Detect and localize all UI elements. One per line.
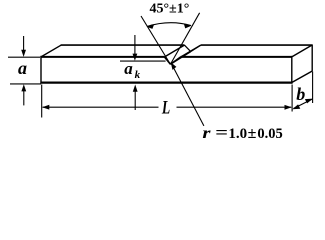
svg-text:45°±1°: 45°±1° bbox=[149, 1, 189, 16]
dimension b: far extension line (vertical) bbox=[312, 72, 314, 104]
dimension L: left arrowhead (points left) bbox=[42, 105, 49, 110]
dimension a_k: upper arrowhead (points down) bbox=[133, 54, 138, 61]
45 degree dimension: left angle line bbox=[141, 16, 170, 64]
svg-text:=: = bbox=[215, 123, 228, 142]
V-notch: right top edge oblique bbox=[181, 45, 201, 57]
radius leader: arrowhead pointing at notch root bbox=[171, 62, 177, 70]
dimension L: line right segment bbox=[177, 106, 292, 108]
specimen bar: right face far vertical edge bbox=[311, 45, 313, 72]
svg-text:r: r bbox=[202, 124, 211, 142]
specimen bar: top face far edge (right of notch) bbox=[201, 44, 313, 46]
V-notch: near face left flank bbox=[164, 57, 170, 64]
radius leader: leader line bbox=[174, 68, 204, 126]
V-notch: left top edge oblique bbox=[164, 45, 184, 57]
dimension a: lower arrow shaft bbox=[23, 90, 25, 105]
dimension b: left arrowhead (points down-left) bbox=[292, 104, 300, 109]
specimen bar: front face top edge (left of notch) bbox=[40, 56, 164, 58]
svg-text:0.05: 0.05 bbox=[257, 126, 282, 142]
dimension a: upper arrowhead (points down) bbox=[21, 50, 26, 57]
specimen bar: top face right oblique edge bbox=[292, 45, 312, 57]
svg-text:±: ± bbox=[248, 125, 257, 142]
dimension a_k: top extension line bbox=[120, 60, 166, 62]
svg-text:b: b bbox=[296, 84, 305, 104]
dimension L: left extension line (vertical) bbox=[41, 85, 43, 118]
specimen bar: front face bottom edge bbox=[40, 81, 292, 83]
V-notch: near face right flank bbox=[170, 57, 180, 64]
dimension a: bottom extension line bbox=[10, 83, 41, 85]
dimension L: right arrowhead (points right) bbox=[285, 105, 292, 110]
svg-text:k: k bbox=[135, 69, 141, 81]
specimen bar: top face far edge (left of notch) bbox=[61, 44, 185, 46]
45 degree dimension: right angle line bbox=[171, 13, 200, 64]
svg-text:a: a bbox=[124, 59, 133, 78]
V-notch: far face left flank bbox=[184, 45, 190, 52]
dimension a_k: upper arrow shaft bbox=[134, 35, 136, 55]
V-notch: far face right flank bbox=[191, 45, 201, 52]
45 degree dimension: arc bbox=[147, 23, 191, 27]
specimen bar: front face top edge (right of notch) bbox=[181, 56, 293, 58]
svg-text:1.0: 1.0 bbox=[228, 126, 247, 142]
45 degree dimension: arc right arrowhead bbox=[184, 24, 192, 29]
specimen bar: right face bottom oblique edge bbox=[292, 71, 312, 82]
specimen bar: front face right edge bbox=[291, 56, 293, 84]
dimension a_k: lower arrow shaft bbox=[134, 91, 136, 111]
specimen bar: top face left oblique edge bbox=[41, 45, 61, 57]
45 degree dimension: arc left arrowhead bbox=[147, 24, 155, 29]
svg-text:a: a bbox=[18, 58, 27, 78]
svg-text:L: L bbox=[161, 96, 170, 118]
V-notch: root oblique line bbox=[170, 52, 190, 65]
dimension L: line left segment bbox=[43, 106, 159, 108]
dimension b: oblique dimension line bbox=[294, 99, 312, 108]
dimension a: lower arrowhead (points up) bbox=[21, 84, 26, 91]
dimension a_k: lower arrowhead (points up) bbox=[133, 85, 138, 92]
specimen bar: front face left edge bbox=[40, 56, 42, 84]
dimension a: upper arrow shaft bbox=[23, 36, 25, 51]
dimension b: right arrowhead (points up-right) bbox=[305, 99, 313, 104]
dimension L: right extension line (vertical) bbox=[291, 85, 293, 112]
dimension a: top extension line bbox=[8, 56, 40, 58]
